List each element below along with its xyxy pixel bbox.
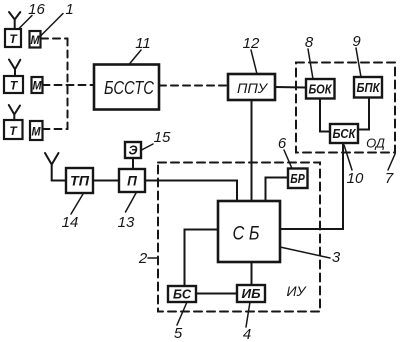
dashed bus vertical [67,39,69,130]
svg-text:М: М [31,33,41,47]
block BSSTS U11 [94,65,159,110]
svg-text:ИУ: ИУ [287,283,308,299]
wire TP to P [93,180,119,182]
modulator M1 (box М) [30,31,41,48]
svg-text:М: М [33,79,43,93]
wire antenna to TP [52,180,66,182]
label 11 with leader line [129,35,151,65]
antenna of T1 [9,12,20,29]
dashed group box OD (7) [296,63,395,153]
block BPK U9 [354,77,382,98]
label 8 with leader line [305,34,314,79]
label 2 with leader line [138,250,158,267]
dashed group box IU (2) [158,163,320,312]
dashed wire M3 to bus [43,128,68,130]
svg-text:ППУ: ППУ [237,80,269,96]
wire PPU to BOK [275,86,306,89]
label 13 with leader line [118,193,136,231]
svg-text:1: 1 [65,1,73,18]
antenna of T2 [9,60,20,77]
label 6 with leader line [278,135,292,169]
block BSK U10 [330,124,358,143]
label 4 with leader line [243,302,251,342]
svg-text:БОК: БОК [309,83,333,97]
svg-text:6: 6 [278,135,287,152]
transmitter T2 (box Т) [4,76,23,93]
svg-text:ТП: ТП [70,174,89,189]
wire E to P [132,158,134,169]
node IU label [287,283,308,299]
wire SB left to BS [185,230,219,287]
label 1 with leader line [41,1,74,36]
dashed wire M1 to bus [41,38,68,40]
svg-text:М: М [32,125,42,139]
svg-text:2: 2 [138,250,148,267]
svg-text:9: 9 [352,33,361,50]
dashed wire BSSTS to PPU [159,85,227,87]
label 15 with leader line [142,129,171,150]
block SB U3 [218,201,280,262]
wire BPK to BSK [358,98,369,130]
label 5 with leader line [174,302,187,342]
svg-text:15: 15 [154,129,171,146]
label 16 with leader line [19,1,46,29]
wire PPU down to SB [251,101,253,201]
label 14 with leader line [62,194,83,231]
wire SB bottom to IB [251,262,253,285]
svg-text:ИБ: ИБ [242,287,261,301]
svg-text:10: 10 [347,170,364,187]
block BR U6 [288,169,308,189]
svg-text:Т: Т [9,124,18,138]
svg-text:5: 5 [174,325,183,342]
svg-text:3: 3 [332,249,341,266]
svg-text:13: 13 [118,214,135,231]
svg-text:БР: БР [290,172,305,186]
block BOK U8 [306,79,335,99]
wire BR to SB [266,178,289,202]
svg-text:14: 14 [62,214,79,231]
block TP U14 [66,168,93,193]
block E U15 [125,142,141,158]
svg-text:БССТС: БССТС [104,78,155,98]
label 12 with leader line [243,35,260,74]
label 9 with leader line [352,33,361,77]
svg-text:БПК: БПК [357,81,381,95]
svg-text:ОД: ОД [366,136,385,151]
svg-text:С Б: С Б [233,224,260,245]
node OD label [366,136,385,151]
svg-text:Т: Т [10,79,19,93]
wire P to SB [145,181,237,202]
svg-text:4: 4 [243,326,251,342]
label 3 with leader line [280,247,341,266]
label 10 with leader line [344,145,364,187]
antenna of TP [45,153,59,181]
block BS U5 [168,286,196,302]
transmitter T3 (box Т) [4,120,23,139]
svg-text:П: П [127,174,137,189]
svg-text:БС: БС [173,288,192,302]
svg-text:8: 8 [305,34,314,51]
svg-text:16: 16 [28,1,45,18]
modulator M3 (box М) [30,121,43,140]
wire BS to IB [196,293,237,295]
dashed wire M2 to BSSTS [43,84,95,86]
block IB U4 [237,285,265,302]
block PPU U12 [228,74,275,100]
svg-text:11: 11 [135,35,151,52]
svg-text:Т: Т [9,32,18,46]
svg-text:7: 7 [385,170,394,187]
svg-text:Э: Э [129,144,138,158]
modulator M2 (box М) [32,77,43,93]
label 7 with leader line [385,154,395,187]
wire BOK to BSK [320,99,330,132]
transmitter T1 (box Т) [5,29,21,47]
antenna of T3 [9,105,20,120]
svg-text:БСК: БСК [333,127,357,141]
wire BSK down to SB right side [280,143,343,229]
block P U13 [119,169,145,192]
